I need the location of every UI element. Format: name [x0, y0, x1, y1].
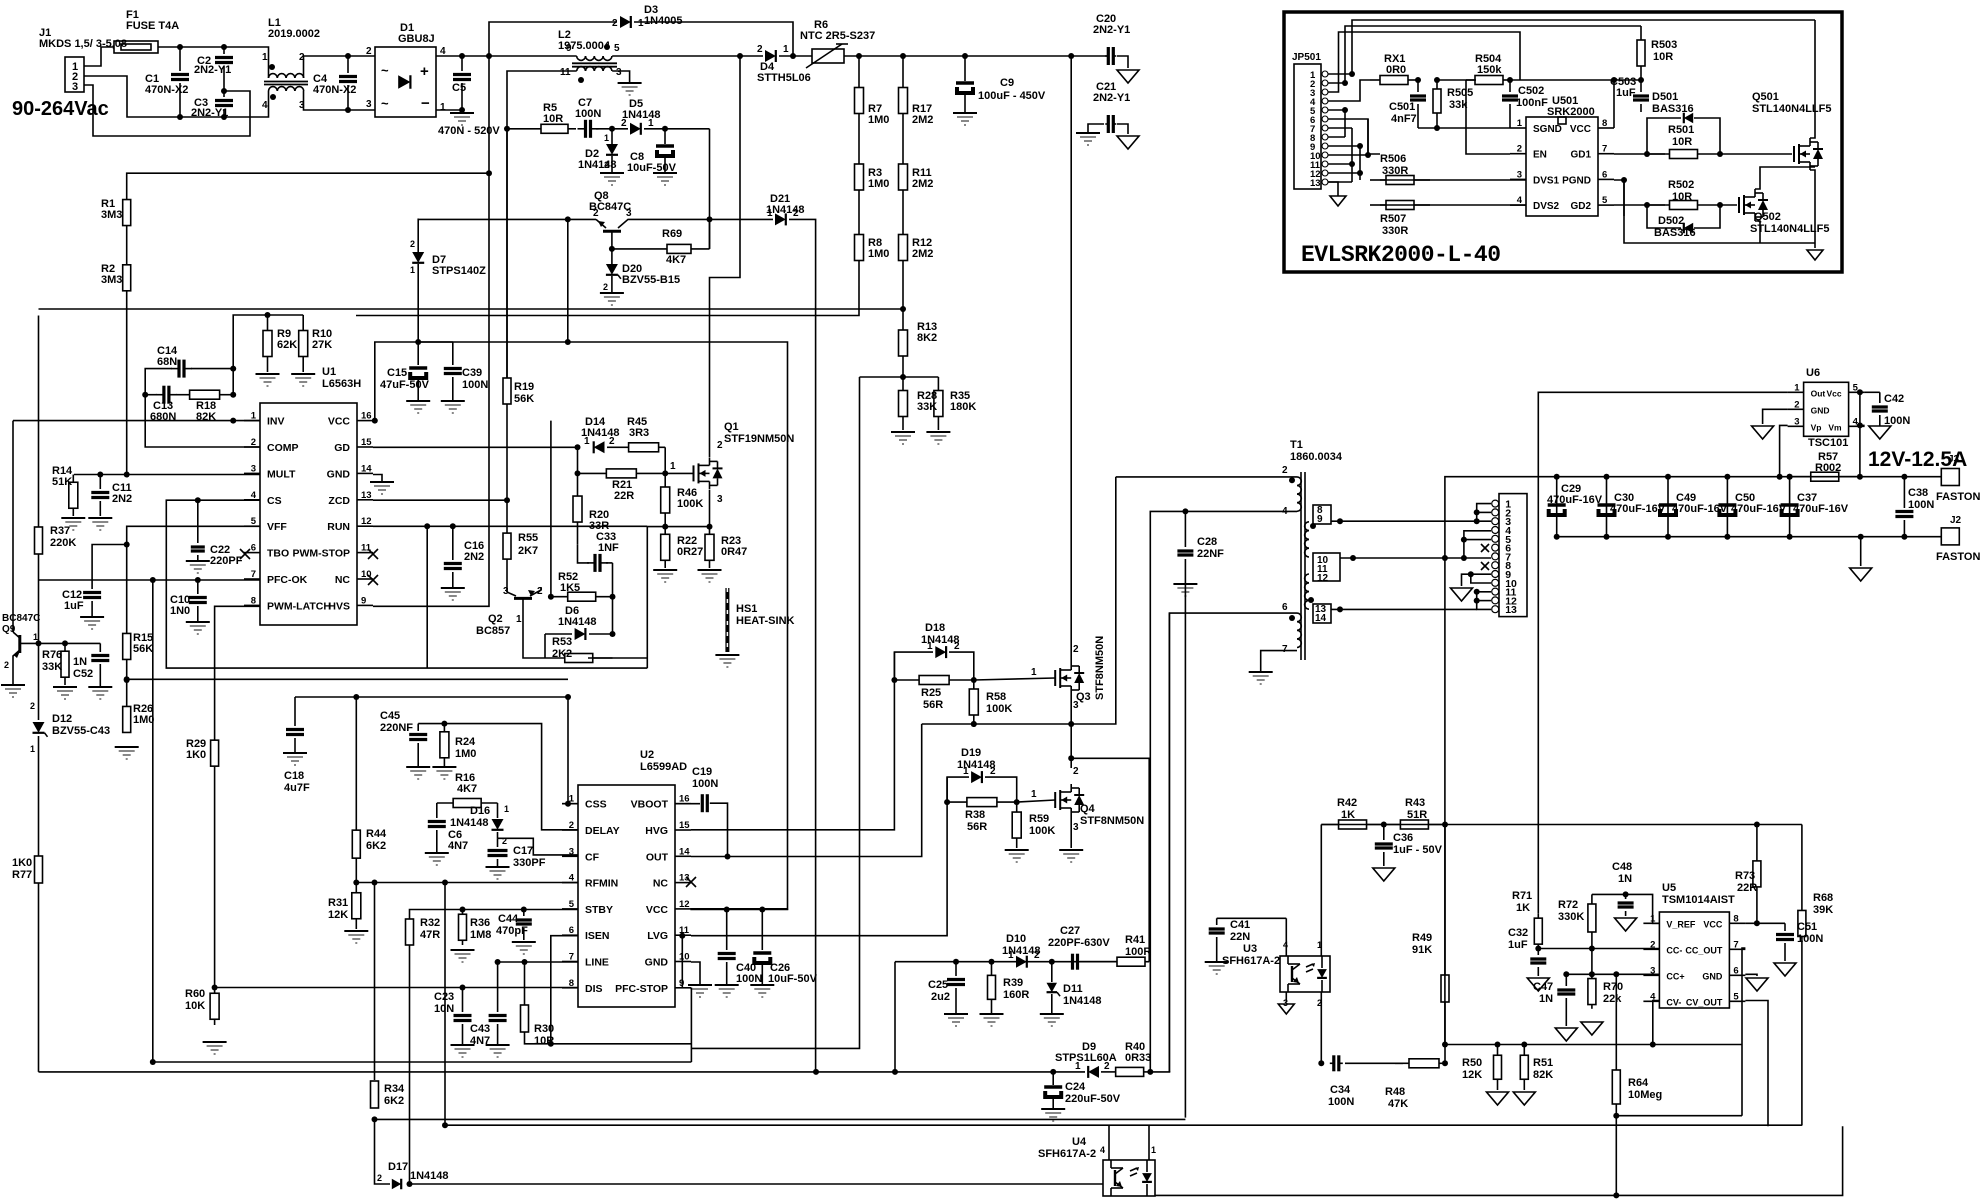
wire x445 chain	[444, 883, 446, 1126]
capacitor C41	[1209, 918, 1251, 961]
wire CF net	[498, 838, 579, 855]
wire GND pin	[373, 475, 382, 482]
node C38 top	[1901, 474, 1907, 480]
svg-text:470uF-16V: 470uF-16V	[1793, 503, 1849, 515]
wire sgnd	[1418, 127, 1510, 129]
transformer T1 label	[1290, 439, 1343, 463]
transistor Q8 BC847C	[589, 190, 640, 249]
svg-text:220K: 220K	[50, 537, 76, 549]
wire C39 branch	[418, 341, 453, 343]
node R503 bot	[1638, 77, 1644, 83]
svg-text:100K: 100K	[986, 703, 1012, 715]
wire D3 to D4 node	[634, 22, 793, 56]
svg-text:10Meg: 10Meg	[1628, 1089, 1662, 1101]
node pgnd dot	[1621, 177, 1627, 183]
wire STBY net	[410, 910, 579, 920]
resistor R64	[1612, 974, 1662, 1195]
ground R9	[256, 374, 280, 386]
svg-text:1N4148: 1N4148	[558, 616, 597, 628]
wire D1 out	[436, 55, 489, 57]
wire 12V bottom bus	[1557, 536, 1942, 538]
resistor R35	[934, 377, 976, 430]
svg-text:4: 4	[1283, 940, 1288, 950]
wire conn910	[1462, 574, 1492, 586]
inductor L2	[558, 29, 622, 83]
svg-text:Q9: Q9	[2, 624, 16, 635]
svg-text:FUSE T4A: FUSE T4A	[126, 20, 179, 32]
svg-text:R60: R60	[185, 988, 205, 1000]
wire sec89 out	[1331, 520, 1477, 522]
ground R76	[53, 687, 77, 699]
wire sec1314 out	[1331, 608, 1477, 610]
node C15 top	[415, 339, 421, 345]
svg-text:1: 1	[1151, 1145, 1156, 1155]
node bus to Q3	[1068, 53, 1074, 59]
svg-text:R49: R49	[1412, 932, 1432, 944]
wire VBOOT net	[675, 803, 700, 805]
svg-text:4: 4	[251, 490, 257, 501]
node C26 top	[759, 907, 765, 913]
svg-text:CV-: CV-	[1666, 997, 1681, 1007]
svg-text:R502: R502	[1668, 179, 1694, 191]
wire jp1	[1328, 20, 1815, 74]
wire U4 pin4	[1108, 1125, 1110, 1160]
svg-text:CC-: CC-	[1666, 945, 1682, 955]
node Q1 source node	[707, 524, 713, 530]
node D10 right	[1049, 959, 1055, 965]
wire jp3	[1328, 32, 1520, 92]
ground C16	[441, 588, 465, 600]
node C30 bot	[1604, 534, 1610, 540]
wire RUN line	[373, 525, 647, 527]
svg-text:0R33: 0R33	[1125, 1052, 1151, 1064]
svg-text:U2: U2	[640, 749, 654, 761]
wire jp v2	[1359, 146, 1361, 180]
wire jp12	[1328, 172, 1360, 174]
label 90-264Vac	[12, 98, 109, 120]
wire C8 node down	[709, 129, 711, 249]
node R1 HV tap	[486, 170, 492, 176]
node R76 top	[62, 640, 68, 646]
resistor R69	[612, 228, 710, 266]
diode D9	[1055, 1041, 1117, 1078]
wire D501 loop	[1647, 118, 1720, 154]
svg-text:Vp: Vp	[1811, 422, 1822, 432]
svg-text:6: 6	[1282, 602, 1288, 613]
wire y80 right	[1512, 79, 1641, 81]
node C4 top	[345, 53, 351, 59]
svg-text:2M2: 2M2	[912, 248, 933, 260]
svg-text:C28: C28	[1197, 536, 1217, 548]
svg-text:GD2: GD2	[1570, 201, 1591, 212]
wire D7 line	[417, 219, 419, 251]
node R505 top	[1434, 77, 1440, 83]
capacitor C12	[62, 589, 101, 616]
transistor Q9 BC847C	[2, 613, 40, 670]
ground triangle U3	[1278, 1004, 1294, 1014]
node aux to D21 line	[707, 216, 713, 222]
wire gd2 to gate	[1720, 204, 1737, 206]
node C13 C12 node	[142, 392, 148, 398]
node C4 bottom	[345, 107, 351, 113]
resistor R45	[622, 416, 665, 452]
capacitor C9 100uF-450V	[955, 56, 1046, 112]
ground C40	[715, 985, 739, 997]
node mid tap riser	[1442, 555, 1448, 561]
svg-text:HS1: HS1	[736, 603, 757, 615]
resistor R29	[186, 738, 219, 767]
node C40 top	[724, 907, 730, 913]
wire vcc501	[1613, 80, 1615, 128]
node R5 node	[504, 126, 510, 132]
svg-text:0R47: 0R47	[721, 546, 747, 558]
wire L2 out	[612, 55, 740, 57]
HV vertical	[373, 56, 489, 606]
svg-text:12K: 12K	[328, 909, 348, 921]
wire D4 right	[779, 55, 812, 57]
node DIS C23	[460, 985, 466, 991]
svg-text:R55: R55	[518, 532, 538, 544]
svg-text:220PF: 220PF	[210, 555, 243, 567]
ground Q9	[1, 685, 25, 697]
optocoupler U4 SFH617A-2	[1038, 1136, 1156, 1196]
svg-text:VFF: VFF	[267, 521, 287, 533]
node INV node	[230, 418, 236, 424]
wire jp5	[1328, 109, 1345, 111]
resistor R50	[1462, 1045, 1502, 1091]
node R48 right	[1442, 1060, 1448, 1066]
ground C43	[486, 1045, 510, 1057]
capacitor C48	[1612, 861, 1634, 916]
node jp2 dot	[1342, 80, 1348, 86]
node gd1 l	[1644, 151, 1650, 157]
svg-text:5: 5	[614, 43, 620, 54]
resistor R49	[1412, 825, 1449, 1045]
svg-text:C47: C47	[1533, 981, 1553, 993]
wire R2 down	[126, 291, 128, 475]
wire U4 pin3	[410, 1183, 1104, 1185]
capacitor C5	[452, 56, 471, 112]
wire jp6	[1328, 119, 1380, 154]
wire U6 gnd	[1763, 409, 1788, 424]
svg-text:10: 10	[361, 569, 372, 580]
ground triangle JP501	[1330, 196, 1346, 206]
diode D17	[377, 1161, 449, 1189]
svg-text:R503: R503	[1651, 39, 1677, 51]
wire C12 link	[92, 545, 127, 590]
node C5 bottom2	[459, 107, 465, 113]
wire L2 pin11 down	[507, 71, 577, 378]
wire D10 left drop	[894, 962, 896, 1072]
svg-text:R58: R58	[986, 691, 1006, 703]
capacitor C8	[627, 129, 677, 174]
svg-text:3: 3	[72, 81, 78, 93]
node rail x445	[442, 1122, 448, 1128]
svg-text:2M2: 2M2	[912, 114, 933, 126]
capacitor C50	[1717, 492, 1786, 517]
svg-text:3: 3	[1794, 416, 1799, 427]
node LINE R30	[522, 959, 528, 965]
svg-text:27K: 27K	[312, 339, 332, 351]
wire D10 line	[895, 961, 1117, 963]
svg-text:6: 6	[1602, 169, 1607, 180]
node C36 tap	[1381, 822, 1387, 828]
node R64 cc	[1613, 971, 1619, 977]
capacitor C47	[1533, 974, 1575, 1026]
wire D21 left	[710, 218, 774, 220]
ground R36	[451, 950, 475, 962]
node vcc drop dot	[1611, 77, 1617, 83]
resistor R2	[101, 263, 131, 291]
wire GD down	[577, 447, 579, 473]
node RUN C16	[450, 523, 456, 529]
svg-text:1: 1	[783, 44, 789, 55]
wire PWMLATCH	[215, 606, 260, 739]
svg-text:2: 2	[793, 208, 799, 219]
svg-text:1uF: 1uF	[64, 600, 84, 612]
svg-text:Vcc: Vcc	[1826, 388, 1841, 398]
wire D12 to R77	[38, 736, 40, 856]
svg-text:1: 1	[440, 102, 446, 113]
wire R9R10 rail	[233, 315, 303, 395]
resistor R77	[12, 856, 43, 883]
connector J1	[39, 27, 127, 93]
svg-text:TSC101: TSC101	[1808, 437, 1848, 449]
ground R35	[926, 432, 950, 444]
node C38 bot	[1901, 534, 1907, 540]
svg-text:D19: D19	[961, 747, 981, 759]
svg-text:GND: GND	[1702, 971, 1723, 981]
ground R22	[653, 570, 677, 582]
resistor R21	[578, 469, 666, 502]
node vp tap	[1777, 474, 1783, 480]
svg-text:470uF-16V: 470uF-16V	[1610, 503, 1666, 515]
resistor R25	[894, 676, 973, 712]
node RFMIN x445	[442, 880, 448, 886]
svg-text:T1: T1	[1290, 439, 1303, 451]
node CSS corner	[565, 694, 571, 700]
svg-text:4N7: 4N7	[448, 840, 468, 852]
nc mark NC10	[368, 575, 378, 585]
svg-text:1N0: 1N0	[170, 605, 190, 617]
capacitor C30	[1597, 492, 1666, 517]
wire jp4	[1328, 80, 1370, 101]
svg-text:2: 2	[757, 44, 763, 55]
ground triangle J2	[1850, 568, 1872, 581]
svg-text:14: 14	[1315, 613, 1327, 624]
node R7 top	[856, 53, 862, 59]
wire PFCOK to Q9 base	[38, 580, 40, 643]
wire R45 down	[664, 447, 666, 473]
node C1 top	[177, 44, 183, 50]
wire gd1 line	[1614, 153, 1665, 155]
capacitor C39	[444, 342, 489, 400]
wire vcc drop	[567, 219, 569, 342]
svg-text:BAS316: BAS316	[1652, 103, 1694, 115]
svg-text:C43: C43	[470, 1023, 490, 1035]
svg-text:1: 1	[504, 804, 509, 814]
resistor R48	[1385, 1059, 1445, 1110]
resistor R44	[352, 828, 387, 858]
resistor R11	[899, 145, 934, 209]
svg-text:100R: 100R	[1125, 946, 1151, 958]
resistor R43	[1384, 797, 1445, 829]
svg-text:TBO: TBO	[267, 548, 289, 560]
ground triangle C32	[1527, 978, 1549, 991]
resistor R8	[855, 209, 890, 286]
resistor R1	[101, 198, 131, 226]
svg-text:2: 2	[1794, 399, 1799, 410]
svg-text:10N: 10N	[434, 1003, 454, 1015]
wire CSS net	[295, 697, 568, 804]
heatsink HS1	[727, 588, 794, 652]
resistor R24	[440, 724, 477, 766]
wire Q3 source	[1070, 694, 1072, 724]
wire gd1 to gate	[1720, 153, 1792, 155]
svg-text:R77: R77	[12, 869, 32, 881]
svg-text:R59: R59	[1029, 813, 1049, 825]
wire en	[1466, 80, 1510, 154]
svg-text:MULT: MULT	[267, 468, 296, 480]
wire C19 out	[710, 803, 728, 856]
wire ccout rail	[1616, 1115, 1742, 1117]
svg-text:1: 1	[767, 208, 773, 219]
svg-text:GBU8J: GBU8J	[398, 33, 435, 45]
svg-text:100N: 100N	[1328, 1096, 1354, 1108]
capacitor C34	[1328, 1055, 1354, 1108]
node mid R58	[971, 721, 977, 727]
node R51 top	[1521, 1042, 1527, 1048]
svg-text:4u7F: 4u7F	[284, 782, 310, 794]
svg-text:R43: R43	[1405, 797, 1425, 809]
svg-text:J3: J3	[1948, 454, 1960, 465]
resistor R53	[545, 636, 613, 663]
svg-text:R71: R71	[1512, 890, 1532, 902]
ground R39	[980, 1014, 1004, 1026]
svg-text:2N2-Y1: 2N2-Y1	[1093, 92, 1130, 104]
resistor R38	[947, 798, 1017, 833]
resistor R502	[1647, 179, 1720, 210]
resistor R3	[855, 145, 890, 209]
svg-text:R36: R36	[470, 917, 490, 929]
svg-text:R44: R44	[366, 828, 387, 840]
svg-text:2N2: 2N2	[464, 551, 484, 563]
ground T1 pin7	[1249, 672, 1273, 684]
svg-text:10: 10	[679, 952, 690, 963]
diode D5	[621, 98, 661, 135]
svg-text:470uF-16V: 470uF-16V	[1731, 503, 1787, 515]
svg-text:L6599AD: L6599AD	[640, 761, 687, 773]
wire R44 top	[355, 697, 357, 830]
node VCC node	[372, 418, 378, 424]
zener D20	[603, 249, 680, 292]
node C12 tap	[124, 542, 130, 548]
T1 core	[1301, 472, 1305, 660]
svg-text:9: 9	[1317, 514, 1323, 525]
svg-text:2: 2	[502, 836, 507, 846]
svg-text:15: 15	[679, 820, 690, 831]
resistor R70	[1588, 974, 1623, 1009]
wire JP501 gnd	[1328, 182, 1338, 196]
wire conn111213	[1477, 592, 1491, 610]
wire q502 drain	[1755, 167, 1815, 189]
svg-text:BC857: BC857	[476, 625, 510, 637]
svg-text:R72: R72	[1558, 899, 1578, 911]
svg-text:9: 9	[566, 43, 572, 54]
svg-text:CSS: CSS	[585, 799, 607, 811]
svg-text:33R: 33R	[589, 520, 609, 532]
node C50 top	[1724, 474, 1730, 480]
wire MULT line	[74, 474, 260, 476]
svg-text:160R: 160R	[1003, 989, 1029, 1001]
wire R8 bottom	[356, 286, 859, 316]
svg-text:R68: R68	[1813, 892, 1833, 904]
svg-text:BZV55-C43: BZV55-C43	[52, 725, 110, 737]
svg-text:R25: R25	[921, 687, 941, 699]
svg-text:R73: R73	[1735, 870, 1755, 882]
node R21 left	[575, 470, 581, 476]
wire sec mid out	[1340, 557, 1464, 559]
ground D20	[600, 293, 624, 305]
svg-text:7: 7	[251, 569, 256, 580]
wire Q9 emitter gnd	[12, 660, 14, 684]
wire gnd rail	[375, 1118, 1186, 1120]
resistor R10	[299, 315, 333, 372]
svg-text:100N: 100N	[1797, 933, 1823, 945]
wire J1 pin3 earth loop	[84, 85, 250, 136]
resistor R32	[406, 917, 441, 945]
wire jp13	[1328, 181, 1352, 183]
capacitor C22	[191, 500, 243, 567]
svg-text:C44: C44	[498, 913, 519, 925]
node secmid	[1350, 555, 1356, 561]
svg-text:22N: 22N	[1230, 931, 1250, 943]
wire bus to L2	[489, 55, 577, 57]
capacitor C1	[145, 47, 189, 117]
node C32 node	[1535, 946, 1541, 952]
svg-text:2: 2	[1104, 1061, 1110, 1072]
resistor R5	[507, 102, 576, 133]
capacitor C2	[194, 47, 233, 90]
capacitor C20	[1093, 13, 1130, 65]
svg-text:R70: R70	[1603, 981, 1623, 993]
wire U3 pin3 gnd	[1285, 992, 1287, 1002]
node rail R49	[1442, 1042, 1448, 1048]
node C25 tap	[953, 959, 959, 965]
node isen r30	[548, 1041, 554, 1047]
wire J2 gnd	[1860, 537, 1862, 566]
svg-text:1: 1	[1031, 667, 1037, 678]
svg-text:150k: 150k	[1477, 64, 1502, 76]
node R57 left	[1787, 474, 1793, 480]
wire D17 left	[375, 1119, 391, 1184]
ground triangle C42	[1869, 426, 1891, 439]
svg-text:12: 12	[679, 899, 690, 910]
svg-text:STF8NM50N: STF8NM50N	[1094, 636, 1106, 700]
ground D2	[600, 173, 624, 185]
wire C20 gnd	[1117, 56, 1128, 68]
svg-text:3: 3	[616, 67, 622, 78]
svg-text:U5: U5	[1662, 882, 1676, 894]
wire Q3 gate	[974, 678, 1055, 680]
svg-text:56K: 56K	[133, 643, 153, 655]
wire ZCD line	[373, 499, 507, 501]
svg-text:82K: 82K	[1533, 1069, 1553, 1081]
node PFCOK C10	[195, 577, 201, 583]
svg-text:330R: 330R	[1382, 225, 1408, 237]
svg-text:1: 1	[1075, 1061, 1081, 1072]
resistor R41	[1080, 934, 1151, 966]
